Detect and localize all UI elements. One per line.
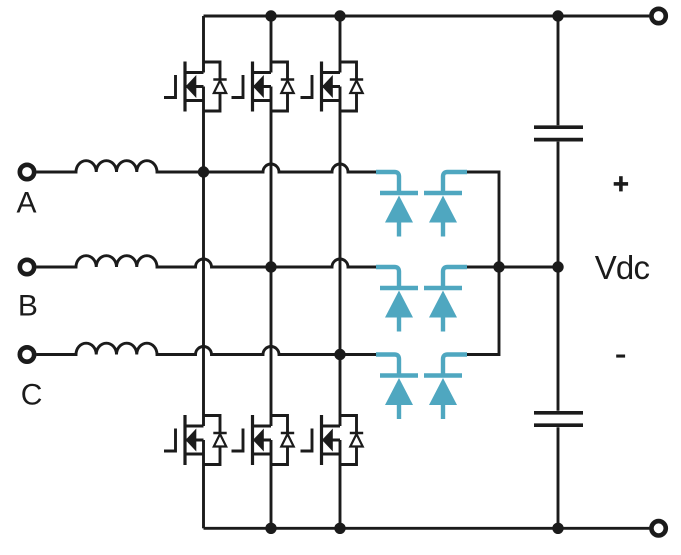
svg-text:Vdc: Vdc: [595, 249, 650, 286]
svg-text:C: C: [21, 379, 43, 412]
svg-text:A: A: [17, 187, 37, 220]
svg-text:B: B: [18, 290, 38, 323]
